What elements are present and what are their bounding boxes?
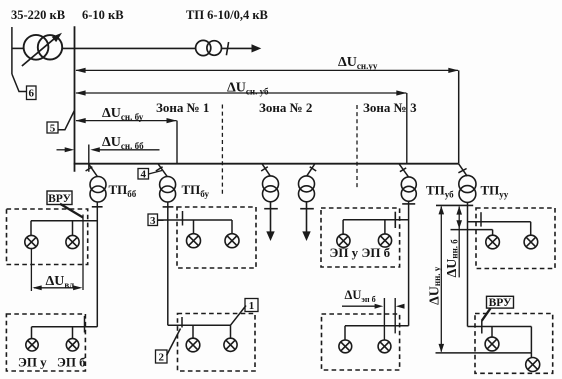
svg-text:Зона №3: Зона №3 [363, 100, 417, 115]
svg-text:ΔUсн. бу: ΔUсн. бу [102, 106, 144, 122]
svg-text:6-10 кВ: 6-10 кВ [82, 8, 124, 22]
svg-text:Зона № 1: Зона № 1 [156, 100, 209, 115]
svg-text:ЭП у: ЭП у [18, 355, 47, 370]
svg-text:ТП 6-10/0,4 кВ: ТП 6-10/0,4 кВ [186, 8, 268, 22]
svg-text:Зона № 2: Зона № 2 [259, 100, 312, 115]
svg-text:1: 1 [249, 300, 255, 312]
svg-text:ΔUнн. у: ΔUнн. у [428, 266, 443, 305]
svg-text:ΔUсн. уб: ΔUсн. уб [227, 81, 269, 97]
svg-text:ΔUнн. б: ΔUнн. б [445, 239, 460, 278]
svg-text:ЭП у: ЭП у [330, 245, 359, 260]
svg-text:35-220 кВ: 35-220 кВ [11, 8, 65, 22]
svg-text:ТПуб: ТПуб [426, 183, 454, 200]
svg-text:2: 2 [158, 352, 164, 364]
svg-text:ΔUсн.уу: ΔUсн.уу [338, 55, 378, 71]
svg-text:ТПуу: ТПуу [481, 183, 509, 200]
svg-text:ВРУ: ВРУ [48, 193, 71, 205]
svg-text:6: 6 [28, 88, 34, 100]
svg-text:3: 3 [150, 215, 156, 227]
svg-text:ЭП б: ЭП б [362, 245, 391, 260]
svg-text:ΔUвл: ΔUвл [46, 274, 75, 290]
svg-text:ΔUсн. бб: ΔUсн. бб [102, 135, 144, 151]
svg-text:4: 4 [140, 169, 146, 181]
svg-text:ЭП б: ЭП б [57, 355, 86, 370]
svg-text:ВРУ: ВРУ [489, 297, 512, 309]
svg-text:ΔUэп б: ΔUэп б [345, 288, 376, 304]
svg-text:ТПбб: ТПбб [109, 182, 137, 199]
svg-text:5: 5 [50, 123, 56, 135]
svg-text:ТПбу: ТПбу [182, 182, 210, 199]
